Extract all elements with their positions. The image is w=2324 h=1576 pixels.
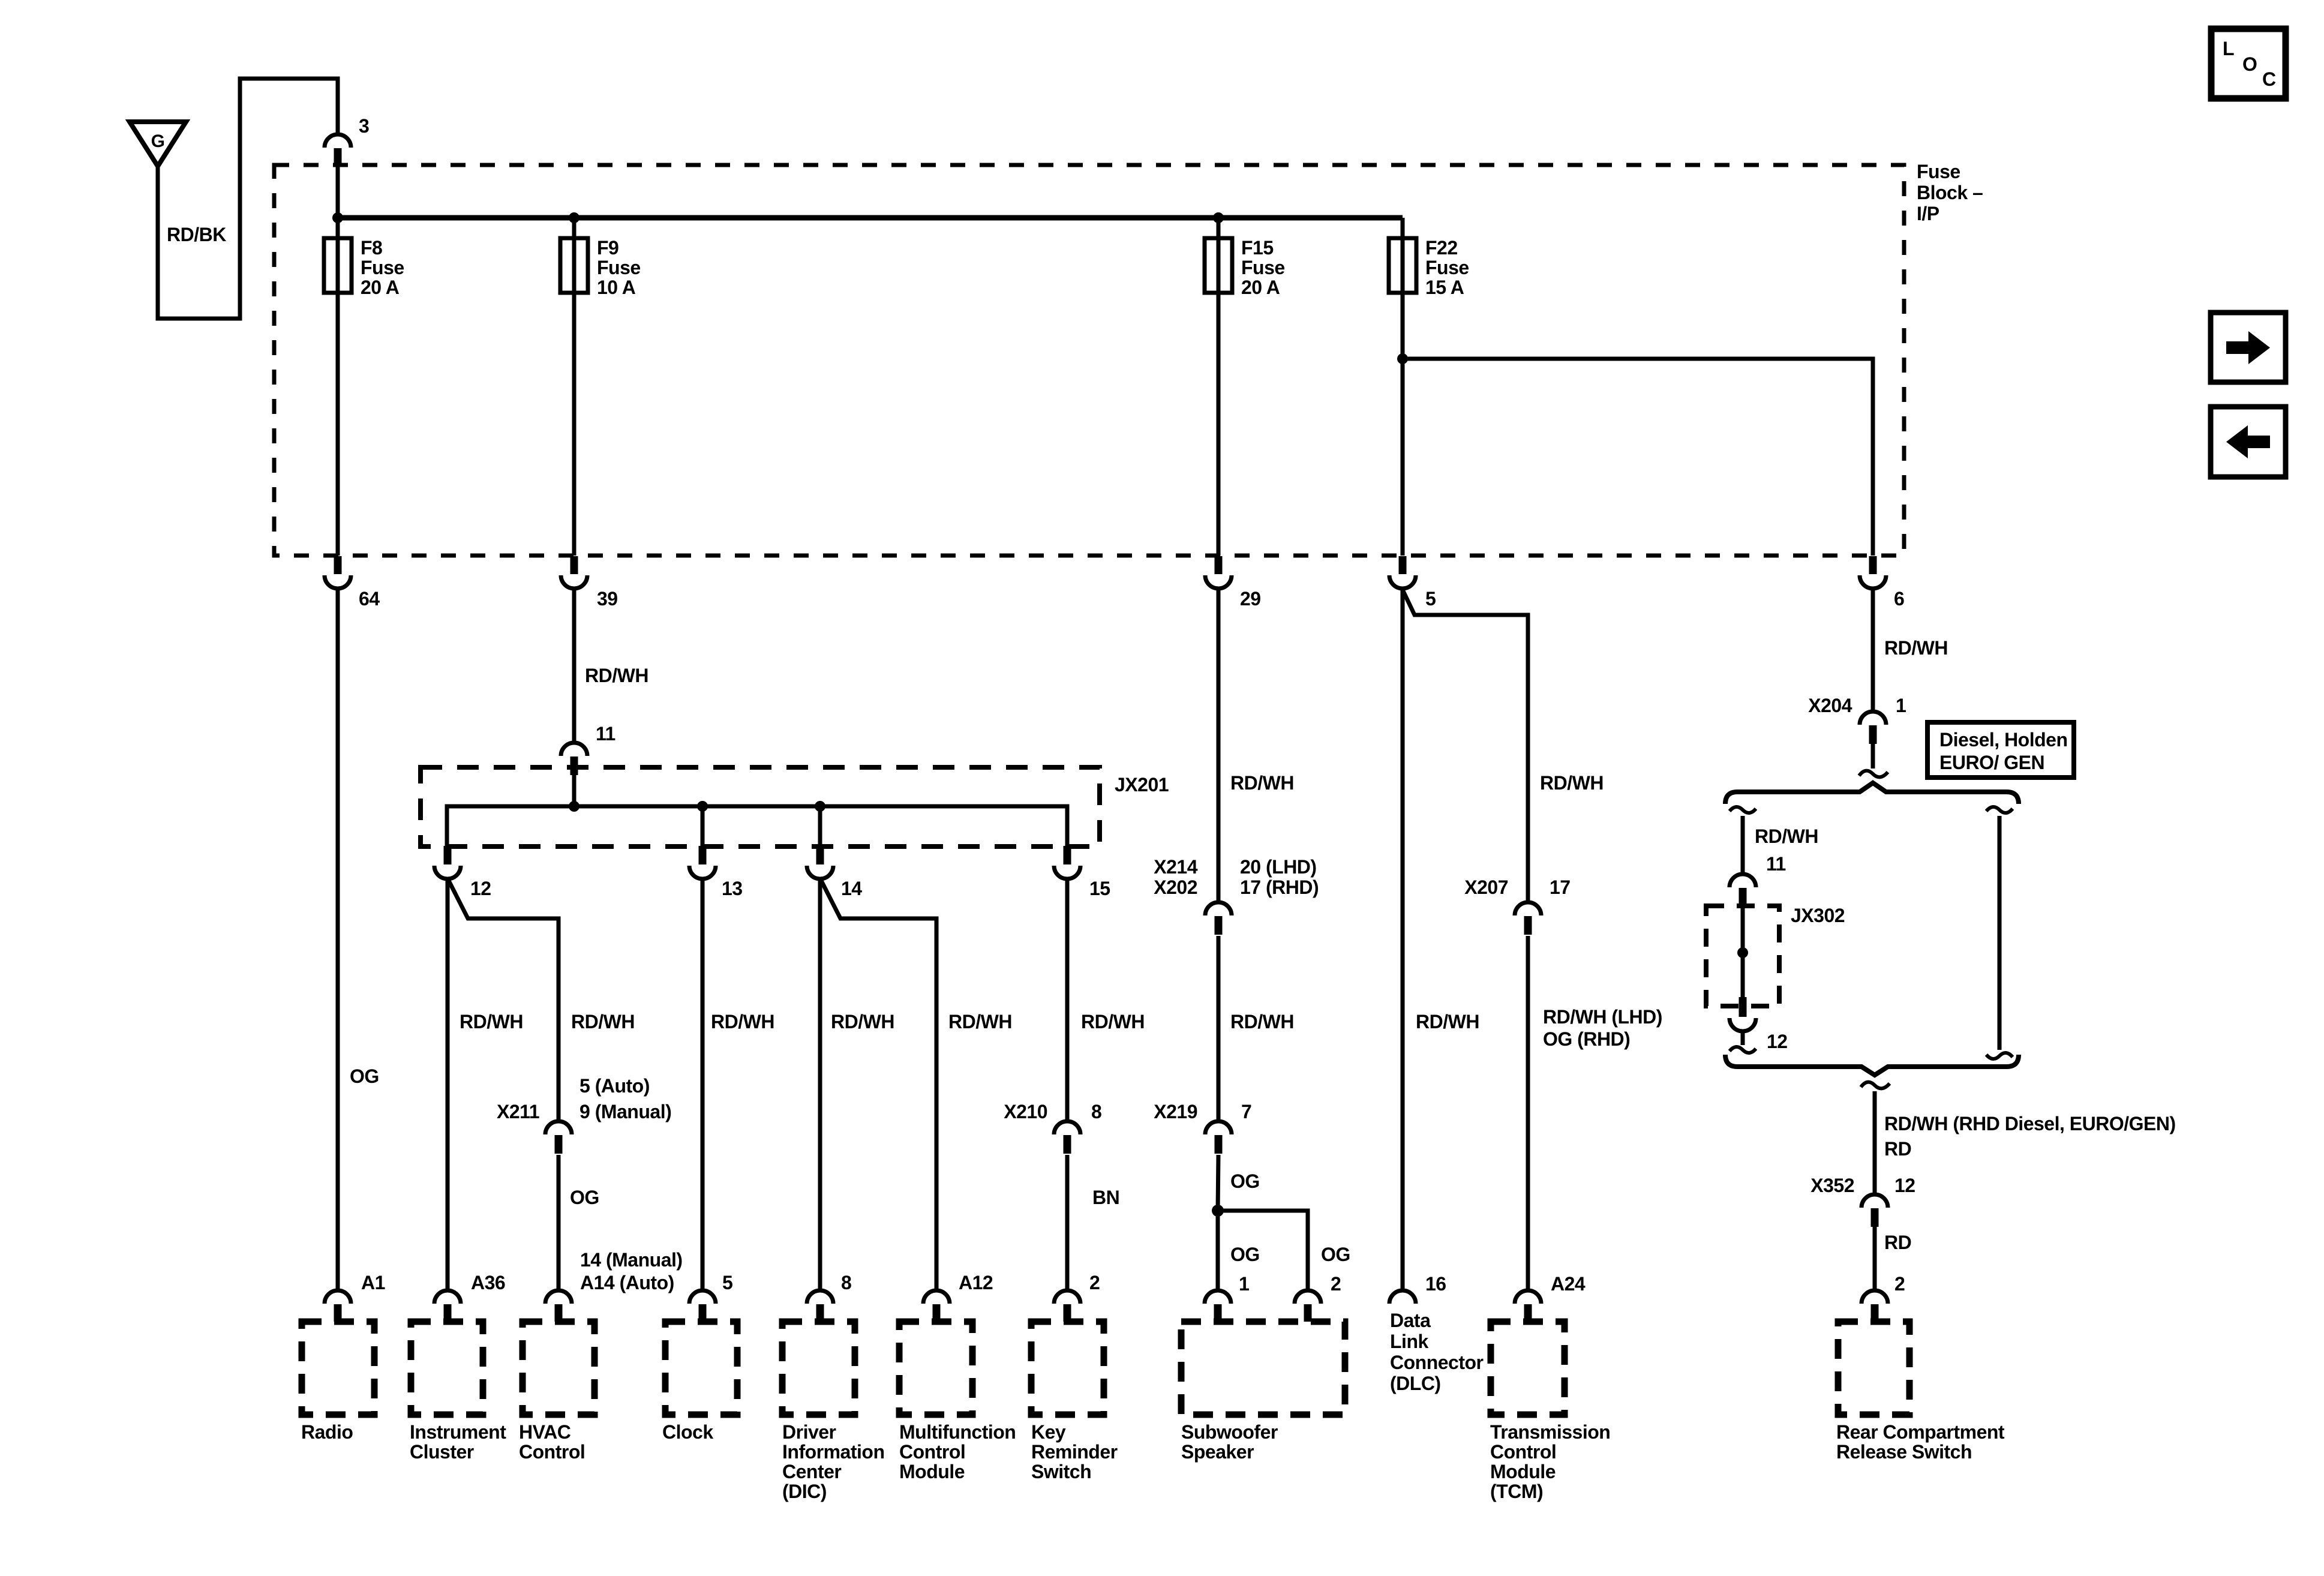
svg-text:Multifunction: Multifunction	[899, 1421, 1016, 1443]
svg-text:(DIC): (DIC)	[782, 1481, 827, 1502]
svg-text:A24: A24	[1551, 1273, 1586, 1295]
svg-text:Clock: Clock	[662, 1421, 713, 1443]
svg-text:RD/WH: RD/WH	[585, 665, 648, 686]
svg-text:20 (LHD): 20 (LHD)	[1240, 856, 1317, 878]
svg-text:17 (RHD): 17 (RHD)	[1240, 876, 1319, 898]
svg-text:29: 29	[1240, 588, 1261, 610]
svg-text:11: 11	[596, 723, 615, 745]
svg-text:Module: Module	[1490, 1461, 1556, 1482]
svg-text:RD/WH: RD/WH	[1884, 637, 1948, 659]
svg-text:Information: Information	[782, 1441, 884, 1463]
svg-text:Connector: Connector	[1390, 1352, 1484, 1373]
svg-text:Control: Control	[1490, 1441, 1556, 1463]
svg-text:A1: A1	[361, 1272, 385, 1293]
svg-text:Switch: Switch	[1031, 1461, 1091, 1482]
svg-text:G: G	[151, 131, 165, 151]
svg-text:Fuse: Fuse	[1241, 257, 1285, 278]
svg-text:Subwoofer: Subwoofer	[1181, 1421, 1278, 1443]
svg-text:7: 7	[1241, 1101, 1251, 1122]
svg-text:12: 12	[470, 878, 491, 899]
svg-text:JX302: JX302	[1791, 905, 1845, 926]
svg-text:20 A: 20 A	[1241, 277, 1280, 298]
svg-text:Data: Data	[1390, 1310, 1431, 1331]
svg-text:3: 3	[359, 115, 369, 137]
svg-text:2: 2	[1894, 1273, 1905, 1295]
svg-text:RD/WH: RD/WH	[1081, 1011, 1145, 1032]
svg-text:RD/WH: RD/WH	[1230, 1011, 1294, 1032]
svg-text:Fuse: Fuse	[361, 257, 404, 278]
svg-text:Diesel, Holden: Diesel, Holden	[1939, 729, 2068, 751]
svg-text:Driver: Driver	[782, 1421, 836, 1443]
svg-text:5: 5	[1425, 588, 1436, 610]
svg-text:Release Switch: Release Switch	[1836, 1441, 1972, 1463]
svg-text:X207: X207	[1464, 876, 1508, 898]
svg-text:14 (Manual): 14 (Manual)	[580, 1249, 683, 1271]
svg-text:17: 17	[1550, 876, 1571, 898]
svg-text:15: 15	[1089, 878, 1110, 899]
svg-text:OG (RHD): OG (RHD)	[1543, 1028, 1630, 1050]
svg-text:HVAC: HVAC	[519, 1421, 571, 1443]
svg-text:(TCM): (TCM)	[1490, 1481, 1543, 1502]
svg-text:2: 2	[1089, 1272, 1100, 1293]
svg-text:Fuse: Fuse	[1425, 257, 1469, 278]
svg-text:Fuse: Fuse	[1917, 161, 1960, 182]
svg-text:39: 39	[597, 588, 618, 610]
svg-text:X352: X352	[1810, 1175, 1854, 1196]
svg-text:RD/WH: RD/WH	[1540, 772, 1604, 794]
svg-text:X219: X219	[1154, 1101, 1197, 1122]
svg-text:RD/WH: RD/WH	[948, 1011, 1012, 1032]
svg-text:Block –: Block –	[1917, 182, 1983, 203]
svg-text:8: 8	[841, 1272, 851, 1293]
svg-text:X214: X214	[1154, 856, 1197, 878]
svg-text:OG: OG	[350, 1065, 379, 1087]
svg-text:5: 5	[722, 1272, 732, 1293]
svg-text:Control: Control	[519, 1441, 585, 1463]
svg-text:RD/WH (LHD): RD/WH (LHD)	[1543, 1006, 1662, 1028]
svg-text:5 (Auto): 5 (Auto)	[580, 1075, 650, 1097]
svg-text:OG: OG	[570, 1187, 599, 1208]
svg-text:16: 16	[1425, 1273, 1446, 1295]
svg-text:15 A: 15 A	[1425, 277, 1464, 298]
svg-text:A14 (Auto): A14 (Auto)	[580, 1272, 674, 1293]
svg-text:RD/BK: RD/BK	[167, 224, 226, 245]
svg-text:X204: X204	[1808, 695, 1852, 716]
svg-text:12: 12	[1894, 1175, 1915, 1196]
svg-text:14: 14	[841, 878, 862, 899]
svg-text:RD/WH (RHD Diesel, EURO/GEN): RD/WH (RHD Diesel, EURO/GEN)	[1884, 1113, 2176, 1134]
svg-text:Speaker: Speaker	[1181, 1441, 1254, 1463]
svg-text:Rear Compartment: Rear Compartment	[1836, 1421, 2005, 1443]
svg-text:1: 1	[1239, 1273, 1249, 1295]
svg-text:RD/WH: RD/WH	[1230, 772, 1294, 794]
svg-text:Radio: Radio	[301, 1421, 353, 1443]
svg-text:(DLC): (DLC)	[1390, 1373, 1441, 1394]
svg-text:OG: OG	[1321, 1244, 1350, 1265]
svg-text:Center: Center	[782, 1461, 841, 1482]
svg-text:RD/WH: RD/WH	[831, 1011, 894, 1032]
svg-text:JX201: JX201	[1115, 774, 1169, 795]
svg-text:I/P: I/P	[1917, 203, 1939, 224]
svg-text:11: 11	[1766, 853, 1786, 875]
svg-text:O: O	[2242, 53, 2257, 75]
svg-text:F9: F9	[597, 237, 618, 259]
svg-text:RD: RD	[1884, 1232, 1911, 1253]
svg-text:L: L	[2223, 38, 2234, 59]
svg-text:RD/WH: RD/WH	[711, 1011, 774, 1032]
svg-text:Transmission: Transmission	[1490, 1421, 1610, 1443]
svg-text:X211: X211	[497, 1101, 539, 1122]
svg-text:13: 13	[722, 878, 743, 899]
svg-text:Instrument: Instrument	[410, 1421, 506, 1443]
svg-text:Fuse: Fuse	[597, 257, 641, 278]
svg-text:OG: OG	[1230, 1244, 1260, 1265]
svg-text:2: 2	[1331, 1273, 1341, 1295]
svg-text:F8: F8	[361, 237, 382, 259]
svg-text:X210: X210	[1004, 1101, 1047, 1122]
svg-text:Link: Link	[1390, 1331, 1428, 1352]
svg-text:X202: X202	[1154, 876, 1197, 898]
svg-text:8: 8	[1091, 1101, 1101, 1122]
svg-text:Key: Key	[1031, 1421, 1066, 1443]
svg-text:RD/WH: RD/WH	[571, 1011, 635, 1032]
svg-text:OG: OG	[1230, 1170, 1260, 1192]
svg-text:A36: A36	[471, 1272, 505, 1293]
svg-text:RD/WH: RD/WH	[1755, 825, 1818, 847]
svg-text:1: 1	[1896, 695, 1906, 716]
svg-text:10 A: 10 A	[597, 277, 636, 298]
svg-text:F22: F22	[1425, 237, 1458, 259]
svg-text:12: 12	[1767, 1031, 1788, 1052]
svg-text:BN: BN	[1092, 1187, 1119, 1208]
svg-text:RD/WH: RD/WH	[460, 1011, 523, 1032]
svg-text:RD: RD	[1884, 1138, 1911, 1160]
svg-text:64: 64	[359, 588, 380, 610]
svg-text:Cluster: Cluster	[410, 1441, 474, 1463]
svg-text:EURO/ GEN: EURO/ GEN	[1939, 752, 2044, 773]
svg-text:Reminder: Reminder	[1031, 1441, 1118, 1463]
svg-text:Module: Module	[899, 1461, 965, 1482]
svg-text:RD/WH: RD/WH	[1416, 1011, 1479, 1032]
svg-text:9 (Manual): 9 (Manual)	[580, 1101, 671, 1122]
svg-text:F15: F15	[1241, 237, 1274, 259]
svg-text:A12: A12	[959, 1272, 993, 1293]
svg-text:20 A: 20 A	[361, 277, 400, 298]
svg-text:6: 6	[1894, 588, 1904, 610]
svg-text:Control: Control	[899, 1441, 965, 1463]
svg-text:C: C	[2262, 68, 2276, 90]
